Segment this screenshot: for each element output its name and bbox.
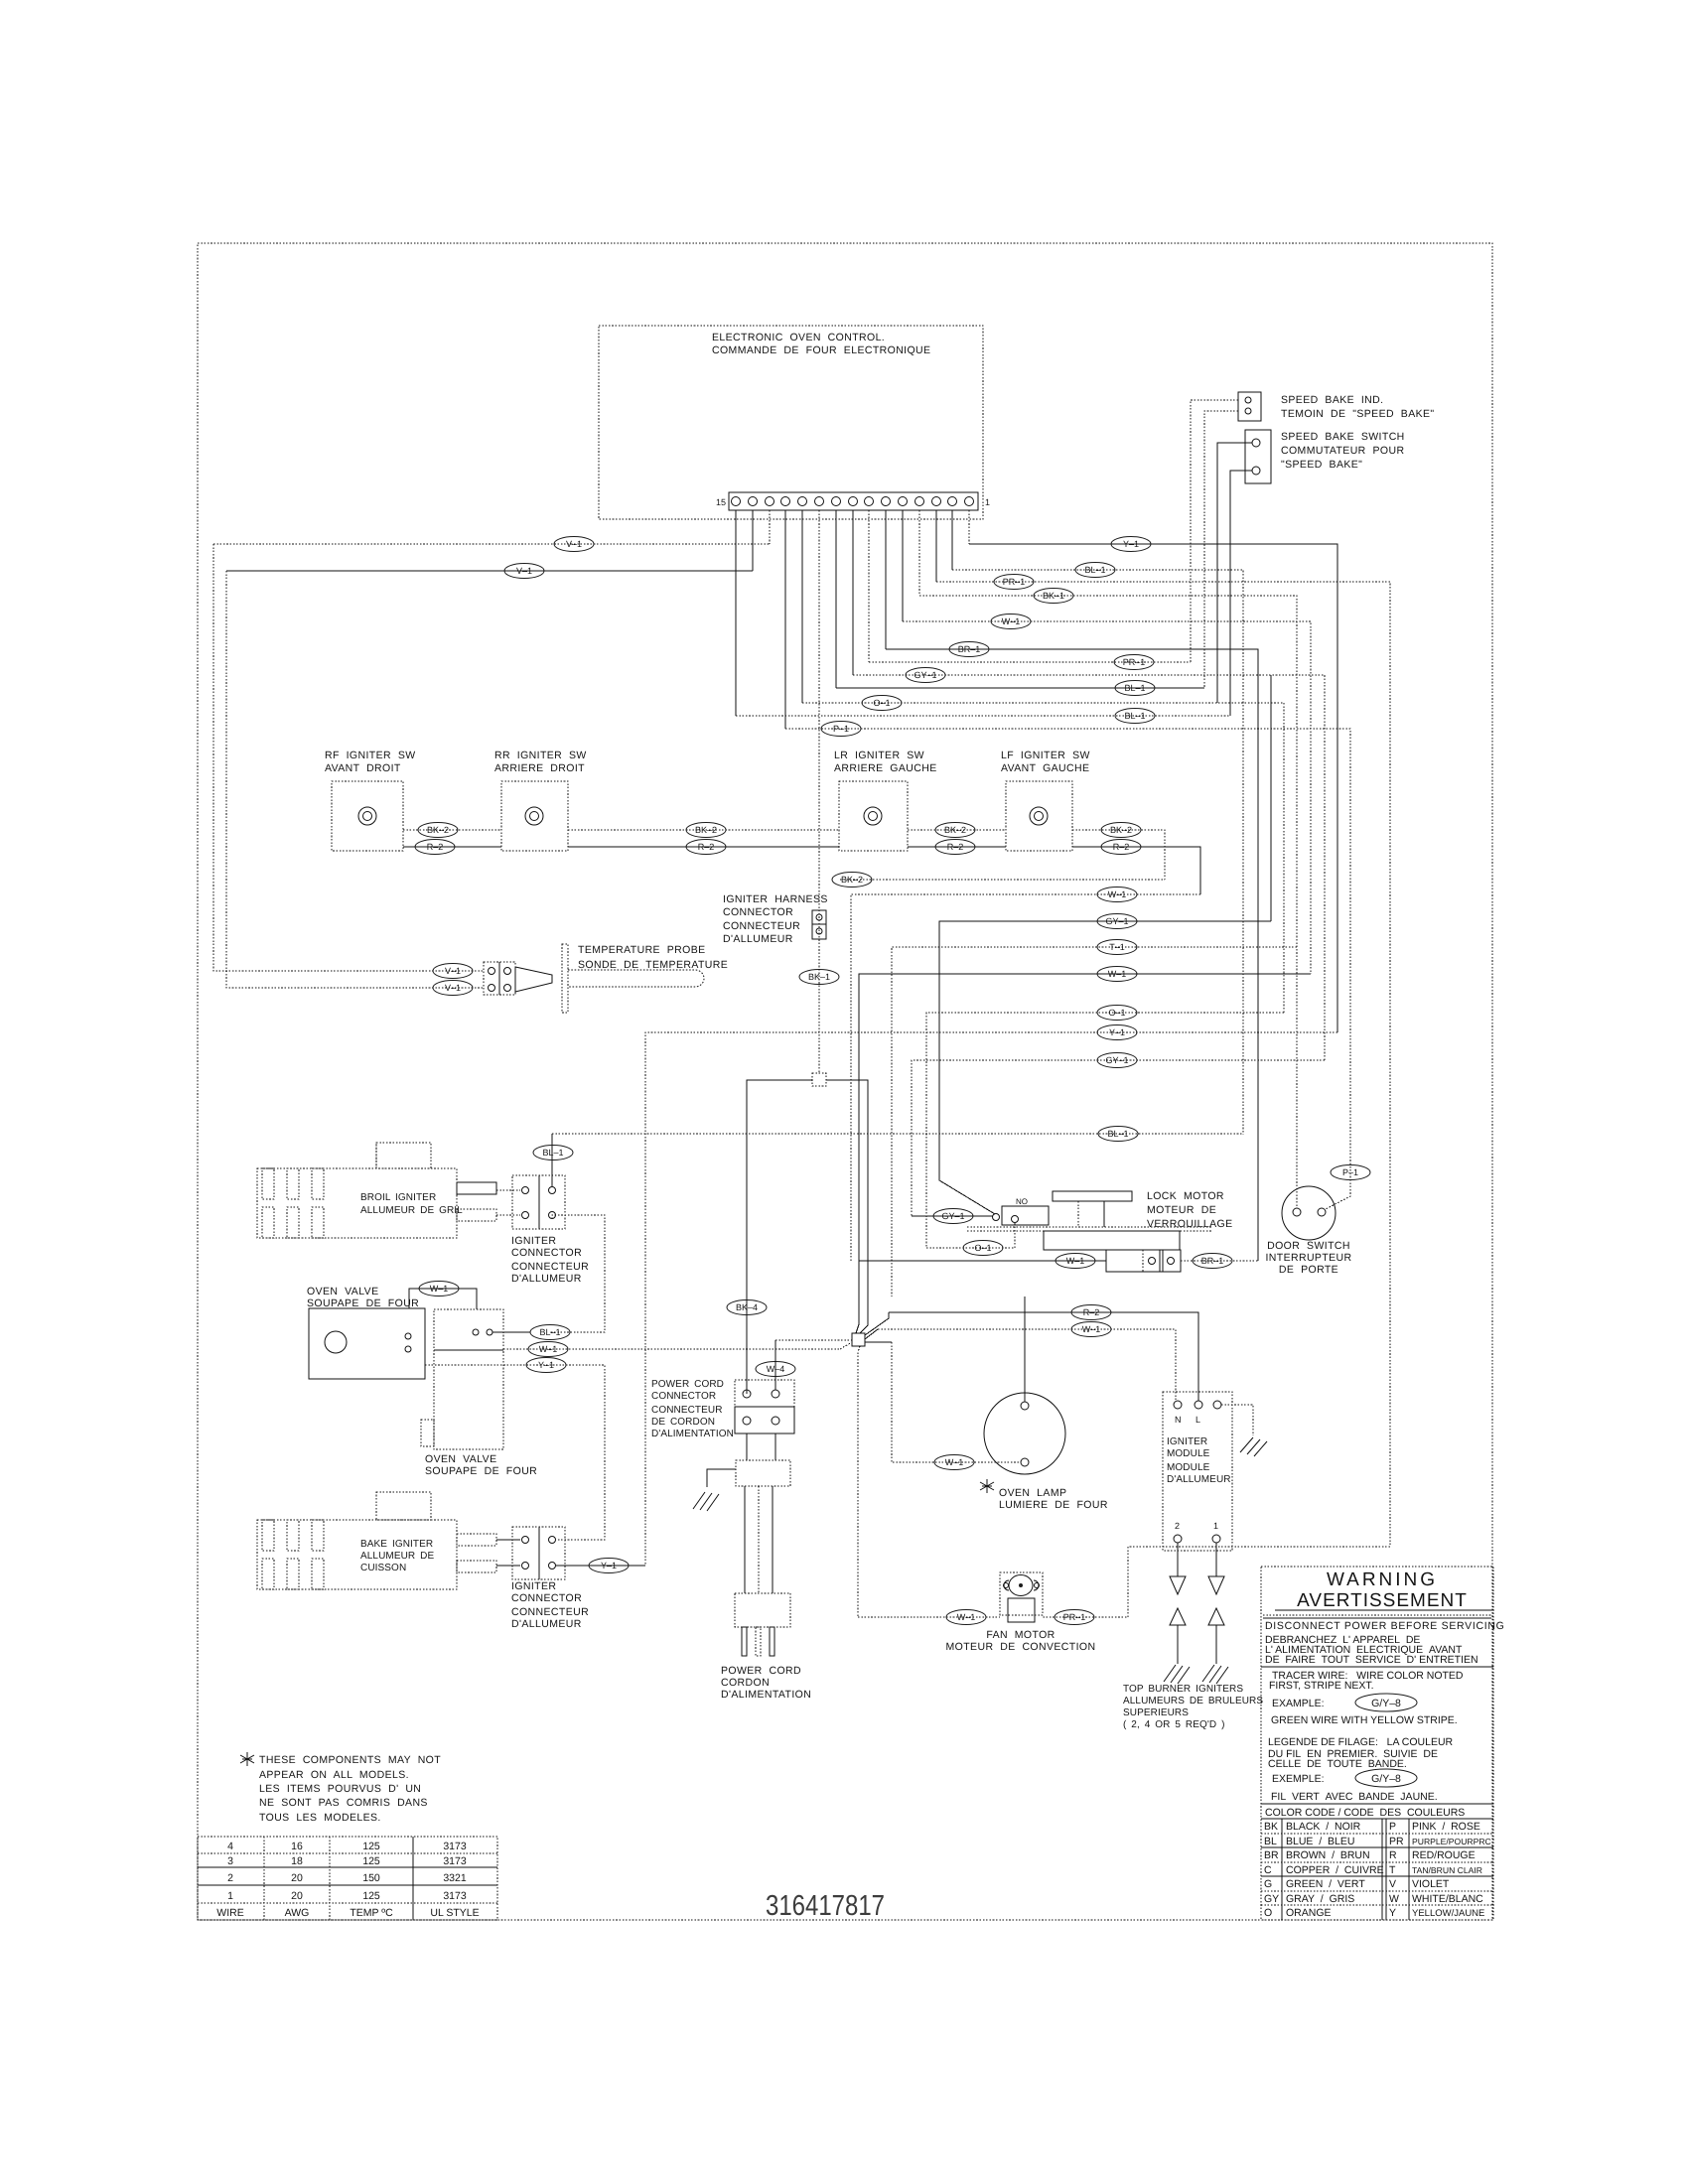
svg-text:BLACK / NOIR: BLACK / NOIR: [1286, 1821, 1361, 1833]
svg-text:P–1: P–1: [1342, 1167, 1358, 1177]
svg-text:D'ALLUMEUR: D'ALLUMEUR: [511, 1618, 582, 1630]
wire BL-1 top horizontal: [952, 570, 1243, 1135]
wire W-4 drop: [774, 1340, 776, 1390]
wire W-1 to latch connector: [859, 1260, 1106, 1262]
svg-text:CONNECTEUR: CONNECTEUR: [511, 1606, 589, 1618]
junction J2 node: [775, 1312, 892, 1617]
wire speed bake ind pin A: [1191, 400, 1238, 662]
svg-text:SPEED BAKE SWITCH: SPEED BAKE SWITCH: [1281, 431, 1405, 443]
svg-text:CONNECTEUR: CONNECTEUR: [651, 1405, 723, 1416]
svg-text:VERROUILLAGE: VERROUILLAGE: [1147, 1218, 1233, 1230]
label Y-1 mid: [1097, 1025, 1137, 1040]
label P-1 a: [821, 722, 861, 737]
svg-text:CONNECTEUR: CONNECTEUR: [723, 920, 800, 932]
wire P-1 horizontal: [785, 729, 1350, 1209]
wire V-1 to probe upper: [213, 544, 484, 971]
label BK-1 on harness wire: [799, 970, 839, 985]
svg-text:DISCONNECT POWER BEFORE SERVIC: DISCONNECT POWER BEFORE SERVICING: [1265, 1620, 1505, 1632]
label BL-1 top: [1075, 563, 1115, 578]
label R-2 c: [935, 840, 975, 855]
svg-text:DOOR SWITCH: DOOR SWITCH: [1267, 1240, 1350, 1252]
top burner igniter arrows pin1: [1202, 1543, 1228, 1684]
svg-text:COMMUTATEUR POUR: COMMUTATEUR POUR: [1281, 445, 1404, 457]
label BK-1 top: [1034, 589, 1073, 604]
svg-text:MODULE: MODULE: [1167, 1448, 1210, 1459]
svg-text:WHITE/BLANC: WHITE/BLANC: [1412, 1893, 1483, 1905]
svg-text:( 2, 4 OR 5 REQ'D ): ( 2, 4 OR 5 REQ'D ): [1123, 1719, 1225, 1730]
svg-text:LR IGNITER SW: LR IGNITER SW: [834, 750, 924, 761]
svg-text:SOUPAPE DE FOUR: SOUPAPE DE FOUR: [425, 1465, 537, 1477]
label W-1 module: [1071, 1322, 1111, 1337]
wire V-1 upper horizontal: [213, 543, 770, 545]
svg-text:DE FAIRE TOUT SERVICE D' E: DE FAIRE TOUT SERVICE D' ENTRETIEN: [1265, 1654, 1478, 1666]
svg-text:CUISSON: CUISSON: [360, 1563, 406, 1573]
svg-text:ORANGE: ORANGE: [1286, 1907, 1332, 1919]
svg-text:COPPER / CUIVRE: COPPER / CUIVRE: [1286, 1864, 1384, 1876]
svg-text:BL–1: BL–1: [1124, 683, 1145, 693]
label BK-4: [727, 1300, 767, 1315]
wire pin10 drop BK-1: [818, 510, 820, 1073]
wire PR-1 second horizontal: [869, 661, 1191, 663]
temperature probe body: [515, 944, 728, 1013]
svg-text:O–1: O–1: [1108, 1008, 1125, 1018]
svg-text:AVANT DROIT: AVANT DROIT: [325, 762, 401, 774]
wire pin11 drop: [801, 510, 803, 703]
svg-text:W–1: W–1: [1002, 616, 1021, 626]
svg-text:AVERTISSEMENT: AVERTISSEMENT: [1297, 1590, 1468, 1611]
svg-text:ARRIERE DROIT: ARRIERE DROIT: [494, 762, 585, 774]
svg-text:LES ITEMS POURVUS D' UN: LES ITEMS POURVUS D' UN: [259, 1783, 421, 1795]
svg-text:EXAMPLE:: EXAMPLE:: [1272, 1698, 1325, 1709]
svg-text:OVEN VALVE: OVEN VALVE: [307, 1286, 378, 1297]
wire GY-1 bus upper segment: [1270, 675, 1272, 921]
label V-1 c: [433, 964, 473, 979]
svg-text:CONNECTOR: CONNECTOR: [511, 1247, 582, 1259]
svg-text:R–2: R–2: [698, 842, 715, 852]
svg-text:BK–2: BK–2: [427, 825, 449, 835]
svg-text:W–1: W–1: [1108, 889, 1127, 899]
label Y-1 valve: [526, 1358, 566, 1373]
wire broil connector to valve BL-1: [550, 1215, 605, 1332]
junction J1: [747, 1073, 868, 1394]
svg-text:TEMPERATURE PROBE: TEMPERATURE PROBE: [578, 944, 706, 956]
label V-1 b: [504, 564, 544, 579]
svg-text:PR–1: PR–1: [1003, 577, 1026, 587]
svg-text:CONNECTEUR: CONNECTEUR: [511, 1261, 589, 1273]
svg-text:TAN/BRUN CLAIR: TAN/BRUN CLAIR: [1412, 1865, 1482, 1875]
svg-text:AWG: AWG: [285, 1907, 310, 1919]
svg-text:V: V: [1389, 1878, 1396, 1890]
igniter module U2: [1163, 1392, 1232, 1551]
wire BL-1 valve: [492, 1331, 530, 1333]
svg-text:Y: Y: [1389, 1907, 1396, 1919]
wire W-1 mid a: [851, 894, 1200, 1261]
svg-text:SUPERIEURS: SUPERIEURS: [1123, 1707, 1189, 1718]
svg-text:MOTEUR DE CONVECTION: MOTEUR DE CONVECTION: [946, 1641, 1096, 1653]
door switch S6: [1265, 1186, 1351, 1276]
wire PR-1 to fan motor: [1043, 1547, 1390, 1617]
svg-text:IGNITER: IGNITER: [511, 1580, 556, 1592]
svg-text:CONNECTOR: CONNECTOR: [511, 1592, 582, 1604]
svg-text:WARNING: WARNING: [1327, 1570, 1438, 1590]
svg-text:O–1: O–1: [873, 698, 890, 708]
wire pin6 drop: [885, 510, 887, 649]
svg-text:2: 2: [1175, 1521, 1180, 1531]
svg-text:IGNITER: IGNITER: [511, 1235, 556, 1247]
label BL-1 c: [1115, 709, 1155, 724]
svg-text:C: C: [1264, 1864, 1272, 1876]
svg-text:CONNECTOR: CONNECTOR: [723, 906, 793, 918]
svg-text:BL–1: BL–1: [1124, 711, 1145, 721]
electronic oven control box U1: [599, 326, 983, 519]
svg-text:RF IGNITER SW: RF IGNITER SW: [325, 750, 416, 761]
wire speed bake ind pin B: [1204, 411, 1238, 688]
svg-text:1: 1: [227, 1890, 233, 1902]
svg-text:GY–1: GY–1: [914, 670, 936, 680]
wire Y-1 top horizontal: [969, 544, 1337, 1032]
svg-text:GY–1: GY–1: [1105, 1055, 1128, 1065]
label O-1 mid: [1097, 1006, 1137, 1021]
wire BL-1 broil drop: [551, 1134, 553, 1186]
svg-text:MODULE: MODULE: [1167, 1462, 1210, 1473]
label W-1 mid a: [1097, 887, 1137, 902]
svg-text:W–1: W–1: [430, 1284, 449, 1294]
label BK-2 d: [1101, 823, 1141, 838]
wire BR-1 from latch connector: [1181, 1260, 1258, 1262]
svg-text:SOUPAPE DE FOUR: SOUPAPE DE FOUR: [307, 1297, 419, 1309]
label W-1 fan: [946, 1610, 986, 1625]
wire pin13 drop: [769, 510, 771, 544]
bake igniter HE2: [257, 1492, 520, 1589]
svg-text:BR: BR: [1264, 1849, 1279, 1861]
svg-text:LEGENDE DE FILAGE: LA COULE: LEGENDE DE FILAGE: LA COULEUR: [1268, 1736, 1454, 1748]
svg-text:BK–2: BK–2: [841, 875, 863, 885]
label R-2 a: [415, 840, 455, 855]
svg-text:PR: PR: [1389, 1836, 1404, 1847]
svg-text:W–1: W–1: [1108, 969, 1127, 979]
svg-text:INTERRUPTEUR: INTERRUPTEUR: [1265, 1252, 1351, 1264]
svg-text:BROIL IGNITER: BROIL IGNITER: [360, 1192, 436, 1203]
label W-1 latch: [1055, 1254, 1095, 1269]
LF igniter switch S4: [1001, 750, 1090, 851]
wire Y-1 valve to bake connector: [425, 1365, 605, 1540]
wire PR-1 top horizontal: [936, 582, 1390, 1547]
svg-text:BL–1: BL–1: [539, 1327, 560, 1337]
svg-text:CONNECTOR: CONNECTOR: [651, 1391, 716, 1402]
wire speed bake switch pin B: [1230, 471, 1252, 716]
wire GY-1 mid a: [939, 921, 1271, 1214]
label BR-1 latch: [1193, 1254, 1232, 1269]
svg-text:PURPLE/POURPRC: PURPLE/POURPRC: [1412, 1837, 1491, 1846]
svg-text:V–1: V–1: [566, 539, 582, 549]
label Y-1 top: [1111, 537, 1151, 552]
svg-text:R–2: R–2: [1083, 1307, 1100, 1317]
label O-1 a: [862, 696, 902, 711]
wire pin2 drop: [951, 510, 953, 570]
svg-text:D'ALLUMEUR: D'ALLUMEUR: [511, 1273, 582, 1285]
wire O-1 to lock motor: [926, 1223, 1015, 1248]
svg-text:W–1: W–1: [1066, 1256, 1085, 1266]
label BL-1 b: [1115, 681, 1155, 696]
svg-text:ALLUMEURS DE BRULEURS: ALLUMEURS DE BRULEURS: [1123, 1696, 1263, 1706]
speed bake switch S5: [1245, 430, 1405, 483]
svg-text:125: 125: [362, 1841, 380, 1852]
label BL-1 valve: [530, 1325, 570, 1340]
svg-text:THESE COMPONENTS MAY NOT: THESE COMPONENTS MAY NOT: [259, 1754, 441, 1766]
top burner igniters caption: [1123, 1684, 1263, 1730]
label W-1 lamp: [934, 1455, 974, 1470]
wire BK-2 rail top: [403, 830, 1165, 880]
svg-text:V–1: V–1: [445, 983, 461, 993]
svg-text:316417817: 316417817: [766, 1890, 885, 1922]
svg-text:Y–1: Y–1: [1123, 539, 1139, 549]
svg-text:BLUE / BLEU: BLUE / BLEU: [1286, 1836, 1354, 1847]
svg-text:GREEN WIRE WITH YELLOW STR: GREEN WIRE WITH YELLOW STRIPE.: [1271, 1714, 1458, 1726]
svg-text:CORDON: CORDON: [721, 1677, 770, 1689]
svg-text:RED/ROUGE: RED/ROUGE: [1412, 1849, 1476, 1861]
wire pin15 drop: [735, 510, 737, 716]
broil igniter HE1: [257, 1143, 520, 1238]
svg-text:N: N: [1175, 1415, 1182, 1425]
svg-text:TEMOIN DE "SPEED BAKE": TEMOIN DE "SPEED BAKE": [1281, 408, 1435, 420]
bake igniter connector: [511, 1527, 589, 1630]
svg-text:RR IGNITER SW: RR IGNITER SW: [494, 750, 587, 761]
svg-text:1: 1: [1213, 1521, 1218, 1531]
svg-text:LOCK MOTOR: LOCK MOTOR: [1147, 1190, 1224, 1202]
wire T-1 mid: [892, 947, 1297, 1297]
wire W-1 mid b: [856, 974, 1311, 1333]
wire pin12 drop: [784, 510, 786, 729]
svg-text:D'ALLUMEUR: D'ALLUMEUR: [723, 933, 793, 945]
svg-text:TOP BURNER IGNITERS: TOP BURNER IGNITERS: [1123, 1684, 1243, 1695]
label GY-1 lock: [933, 1209, 973, 1224]
svg-text:16: 16: [291, 1841, 303, 1852]
wire Y-1 bake to bus: [556, 1565, 645, 1567]
svg-text:18: 18: [291, 1855, 303, 1867]
svg-text:3173: 3173: [443, 1841, 467, 1852]
svg-text:T–1: T–1: [1109, 942, 1125, 952]
label GY-1 mid a: [1097, 914, 1137, 929]
svg-text:15: 15: [716, 497, 726, 507]
svg-text:LF IGNITER SW: LF IGNITER SW: [1001, 750, 1090, 761]
wire Y-1 mid: [645, 1032, 1337, 1566]
svg-text:BR–1: BR–1: [958, 644, 981, 654]
svg-text:G/Y–8: G/Y–8: [1371, 1773, 1401, 1785]
svg-text:DE PORTE: DE PORTE: [1279, 1264, 1338, 1276]
svg-text:GY: GY: [1264, 1893, 1279, 1905]
label R-2 b: [686, 840, 726, 855]
wire R-2 rail: [403, 847, 1200, 894]
svg-text:BL–1: BL–1: [542, 1148, 563, 1158]
label BK-2 a: [418, 823, 458, 838]
svg-text:L: L: [1196, 1415, 1200, 1425]
RF igniter switch S1: [325, 750, 416, 851]
svg-text:GY–1: GY–1: [941, 1211, 964, 1221]
wire speed bake switch pin A: [1217, 443, 1252, 703]
wire pin7 drop: [868, 510, 870, 662]
svg-text:BL: BL: [1264, 1836, 1277, 1847]
label W-1 valve: [528, 1342, 568, 1357]
wire V-1 to probe lower: [226, 571, 484, 988]
svg-text:1: 1: [985, 497, 990, 507]
svg-text:ALLUMEUR DE GRIL: ALLUMEUR DE GRIL: [360, 1205, 463, 1216]
svg-text:BAKE IGNITER: BAKE IGNITER: [360, 1539, 433, 1550]
wire pin3 drop: [935, 510, 937, 582]
label W-1 valve top: [419, 1282, 459, 1297]
label T-1 mid: [1097, 940, 1137, 955]
broil igniter connector: [511, 1175, 589, 1285]
wire BL-1 third horizontal: [736, 715, 1230, 717]
svg-text:4: 4: [227, 1841, 233, 1852]
svg-text:POWER CORD: POWER CORD: [721, 1665, 801, 1677]
ground for igniter module: [1221, 1405, 1267, 1456]
svg-text:BK: BK: [1264, 1821, 1278, 1833]
svg-text:W–1: W–1: [539, 1344, 558, 1354]
svg-text:NE SONT PAS COMRIS DANS: NE SONT PAS COMRIS DANS: [259, 1797, 428, 1809]
svg-text:D'ALIMENTATION: D'ALIMENTATION: [721, 1689, 811, 1701]
svg-text:D'ALLUMEUR: D'ALLUMEUR: [1167, 1474, 1231, 1485]
wire BK-2 lower run: [840, 879, 1165, 881]
svg-text:P: P: [1389, 1821, 1396, 1833]
svg-text:Y–1: Y–1: [1109, 1027, 1125, 1037]
lock motor assembly M2: [967, 1190, 1233, 1250]
svg-text:LUMIERE DE FOUR: LUMIERE DE FOUR: [999, 1499, 1108, 1511]
wire pin14 drop: [752, 510, 754, 571]
svg-text:R: R: [1389, 1849, 1397, 1861]
label GY-1 mid b: [1097, 1053, 1137, 1068]
svg-text:3173: 3173: [443, 1855, 467, 1867]
svg-text:D'ALIMENTATION: D'ALIMENTATION: [651, 1429, 734, 1439]
EOC connector strip P1 pins 15..1: [716, 492, 990, 510]
svg-text:UL STYLE: UL STYLE: [430, 1907, 479, 1919]
svg-text:V–1: V–1: [516, 566, 532, 576]
svg-text:3: 3: [227, 1855, 233, 1867]
svg-text:DE CORDON: DE CORDON: [651, 1417, 715, 1428]
svg-text:GREEN / VERT: GREEN / VERT: [1286, 1878, 1365, 1890]
svg-text:BK–2: BK–2: [695, 825, 717, 835]
wire pin1 drop: [968, 510, 970, 544]
svg-text:P–1: P–1: [833, 724, 849, 734]
svg-text:R–2: R–2: [947, 842, 964, 852]
label V-1 a: [554, 537, 594, 552]
svg-text:SONDE DE TEMPERATURE: SONDE DE TEMPERATURE: [578, 959, 728, 971]
svg-text:125: 125: [362, 1855, 380, 1867]
svg-text:2: 2: [227, 1872, 233, 1884]
wire gauge table: [198, 1837, 497, 1920]
svg-text:SPEED BAKE IND.: SPEED BAKE IND.: [1281, 394, 1383, 406]
wire pin4 drop: [918, 510, 920, 596]
label BL-1 broil: [533, 1146, 573, 1160]
RR igniter switch S2: [494, 750, 587, 851]
svg-text:ALLUMEUR DE: ALLUMEUR DE: [360, 1551, 434, 1562]
label BK-2 e: [832, 873, 872, 887]
label BR-1 top: [949, 642, 989, 657]
svg-text:125: 125: [362, 1890, 380, 1902]
svg-text:W–1: W–1: [957, 1612, 976, 1622]
svg-text:150: 150: [362, 1872, 380, 1884]
wire R-2 to igniter module: [889, 1312, 1198, 1401]
svg-text:20: 20: [291, 1872, 303, 1884]
warning box: [1261, 1567, 1505, 1920]
svg-text:WIRE: WIRE: [216, 1907, 243, 1919]
svg-text:TEMP ºC: TEMP ºC: [350, 1907, 393, 1919]
wire W-1 top horizontal: [903, 621, 1311, 974]
svg-text:ARRIERE GAUCHE: ARRIERE GAUCHE: [834, 762, 937, 774]
door latch connector: [1106, 1250, 1181, 1272]
svg-text:G: G: [1264, 1878, 1272, 1890]
svg-text:BROWN / BRUN: BROWN / BRUN: [1286, 1849, 1370, 1861]
svg-text:OVEN VALVE: OVEN VALVE: [425, 1453, 496, 1465]
svg-text:MOTEUR DE: MOTEUR DE: [1147, 1204, 1216, 1216]
label R-2 d: [1101, 840, 1141, 855]
wire GY-1 to lock motor: [912, 1215, 993, 1217]
svg-text:T: T: [1389, 1864, 1396, 1876]
svg-text:G/Y–8: G/Y–8: [1371, 1698, 1401, 1709]
svg-text:BK–1: BK–1: [1043, 591, 1064, 601]
svg-text:TOUS LES MODELES.: TOUS LES MODELES.: [259, 1812, 381, 1824]
label O-1 lock: [963, 1241, 1003, 1256]
wire BL-1 second horizontal: [836, 687, 1204, 689]
label PR-1 b: [1114, 655, 1154, 670]
label BL-1 mid: [1098, 1127, 1138, 1142]
svg-text:20: 20: [291, 1890, 303, 1902]
note these components may not appear: [240, 1752, 441, 1824]
wire W-1 to oven lamp: [892, 1342, 1021, 1462]
svg-text:COLOR CODE / CODE DES COULEU: COLOR CODE / CODE DES COULEURS: [1265, 1807, 1465, 1819]
wire O-1 mid: [926, 1013, 1284, 1248]
wire V-1 lower horizontal: [226, 570, 753, 572]
svg-text:OVEN LAMP: OVEN LAMP: [999, 1487, 1066, 1499]
svg-text:PR–1: PR–1: [1123, 657, 1146, 667]
label Y-1 bake: [589, 1559, 629, 1573]
svg-text:3173: 3173: [443, 1890, 467, 1902]
svg-text:Y–1: Y–1: [601, 1561, 617, 1570]
svg-text:IGNITER: IGNITER: [1167, 1436, 1207, 1447]
wire W-1 over valve: [409, 1289, 477, 1309]
wire W-1 to fan motor: [858, 1616, 1000, 1618]
label V-1 d: [433, 981, 473, 996]
svg-text:BL–1: BL–1: [1107, 1129, 1128, 1139]
speed bake indicator lamp: [1238, 392, 1435, 421]
svg-text:W: W: [1389, 1893, 1399, 1905]
svg-text:EXEMPLE:: EXEMPLE:: [1272, 1773, 1325, 1785]
svg-text:CELLE DE TOUTE BANDE.: CELLE DE TOUTE BANDE.: [1268, 1758, 1407, 1770]
wire W-1 to igniter module: [878, 1329, 1176, 1401]
svg-text:IGNITER HARNESS: IGNITER HARNESS: [723, 893, 828, 905]
svg-text:V–1: V–1: [445, 966, 461, 976]
oven valve V1: [307, 1286, 537, 1477]
oven lamp DS1: [980, 1297, 1108, 1511]
label GY-1 top: [906, 668, 945, 683]
svg-text:R–2: R–2: [427, 842, 444, 852]
svg-text:FIRST, STRIPE NEXT.: FIRST, STRIPE NEXT.: [1269, 1680, 1374, 1692]
igniter harness connector: [723, 893, 828, 945]
svg-text:O: O: [1264, 1907, 1272, 1919]
svg-text:BL–1: BL–1: [1084, 565, 1105, 575]
label W-1 mid b: [1097, 967, 1137, 982]
power cord assembly: [693, 1433, 811, 1701]
label BK-2 b: [686, 823, 726, 838]
top burner igniter arrows pin2: [1164, 1543, 1190, 1684]
svg-text:W–1: W–1: [1082, 1324, 1101, 1334]
svg-text:O–1: O–1: [974, 1243, 991, 1253]
svg-text:BK–4: BK–4: [736, 1302, 758, 1312]
label W-1 top: [991, 614, 1031, 629]
svg-text:FAN MOTOR: FAN MOTOR: [986, 1629, 1055, 1641]
svg-text:3321: 3321: [443, 1872, 467, 1884]
label BK-2 c: [935, 823, 975, 838]
wire pin9 drop: [835, 510, 837, 688]
